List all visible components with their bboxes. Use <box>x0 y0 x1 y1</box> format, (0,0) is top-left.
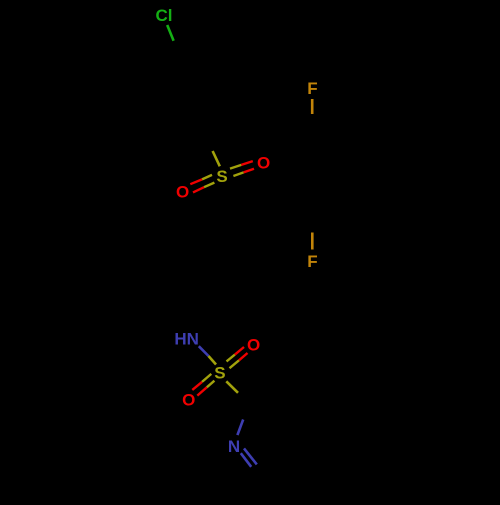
double bond S1=O1 line2 olive half <box>233 172 243 176</box>
bond S2-C (olive half, going down-right to pyridine C2) <box>226 381 238 393</box>
double bond N=C3 line1 (blue half) <box>244 448 257 464</box>
bond N-S2 blue half <box>199 346 209 356</box>
double bond S2=O4 line1 olive half <box>202 374 211 382</box>
double bond S1=O2 line2 red half <box>193 187 204 192</box>
bond F1-C (orange half, vertical stub below label) <box>311 99 314 114</box>
bond F2-C (orange half, vertical stub above label) <box>311 233 314 250</box>
double bond S1=O2 line1 red half <box>190 179 202 184</box>
double bond S2=O3 line2 olive half <box>230 360 240 368</box>
svg-text:O: O <box>257 154 270 173</box>
double bond S1=O1 line1 red half <box>241 161 253 165</box>
svg-text:O: O <box>247 336 260 355</box>
double bond S1=O1 line2 red half <box>244 169 254 173</box>
double bond S2=O3 line2 red half <box>239 353 248 360</box>
svg-text:N: N <box>228 437 240 456</box>
bond N-C2 (pyridine, blue half going up-right) <box>237 420 243 436</box>
bond C-S1 (olive half, going up from sulfone S) <box>213 151 220 166</box>
svg-text:F: F <box>307 252 317 271</box>
double bond S2=O4 line2 olive half <box>207 381 215 388</box>
double bond S1=O2 line1 olive half <box>202 175 212 180</box>
double bond S2=O3 line1 olive half <box>227 355 235 362</box>
svg-text:S: S <box>214 364 225 383</box>
bond Cl-C (green half) <box>167 25 173 41</box>
svg-text:S: S <box>216 167 227 186</box>
svg-text:HN: HN <box>174 330 199 349</box>
svg-text:O: O <box>176 182 189 201</box>
double bond S2=O4 line2 red half <box>197 387 207 395</box>
svg-text:Cl: Cl <box>156 6 173 25</box>
bond N-S2 olive half <box>209 356 217 365</box>
svg-text:F: F <box>307 79 317 98</box>
svg-text:O: O <box>182 391 195 410</box>
double bond S1=O1 line1 olive half <box>230 165 241 169</box>
double bond N=C3 line2 (blue half) <box>241 453 251 467</box>
double bond S2=O4 line1 red half <box>192 382 202 390</box>
double bond S2=O3 line1 red half <box>235 347 244 355</box>
double bond S1=O2 line2 olive half <box>204 183 214 188</box>
